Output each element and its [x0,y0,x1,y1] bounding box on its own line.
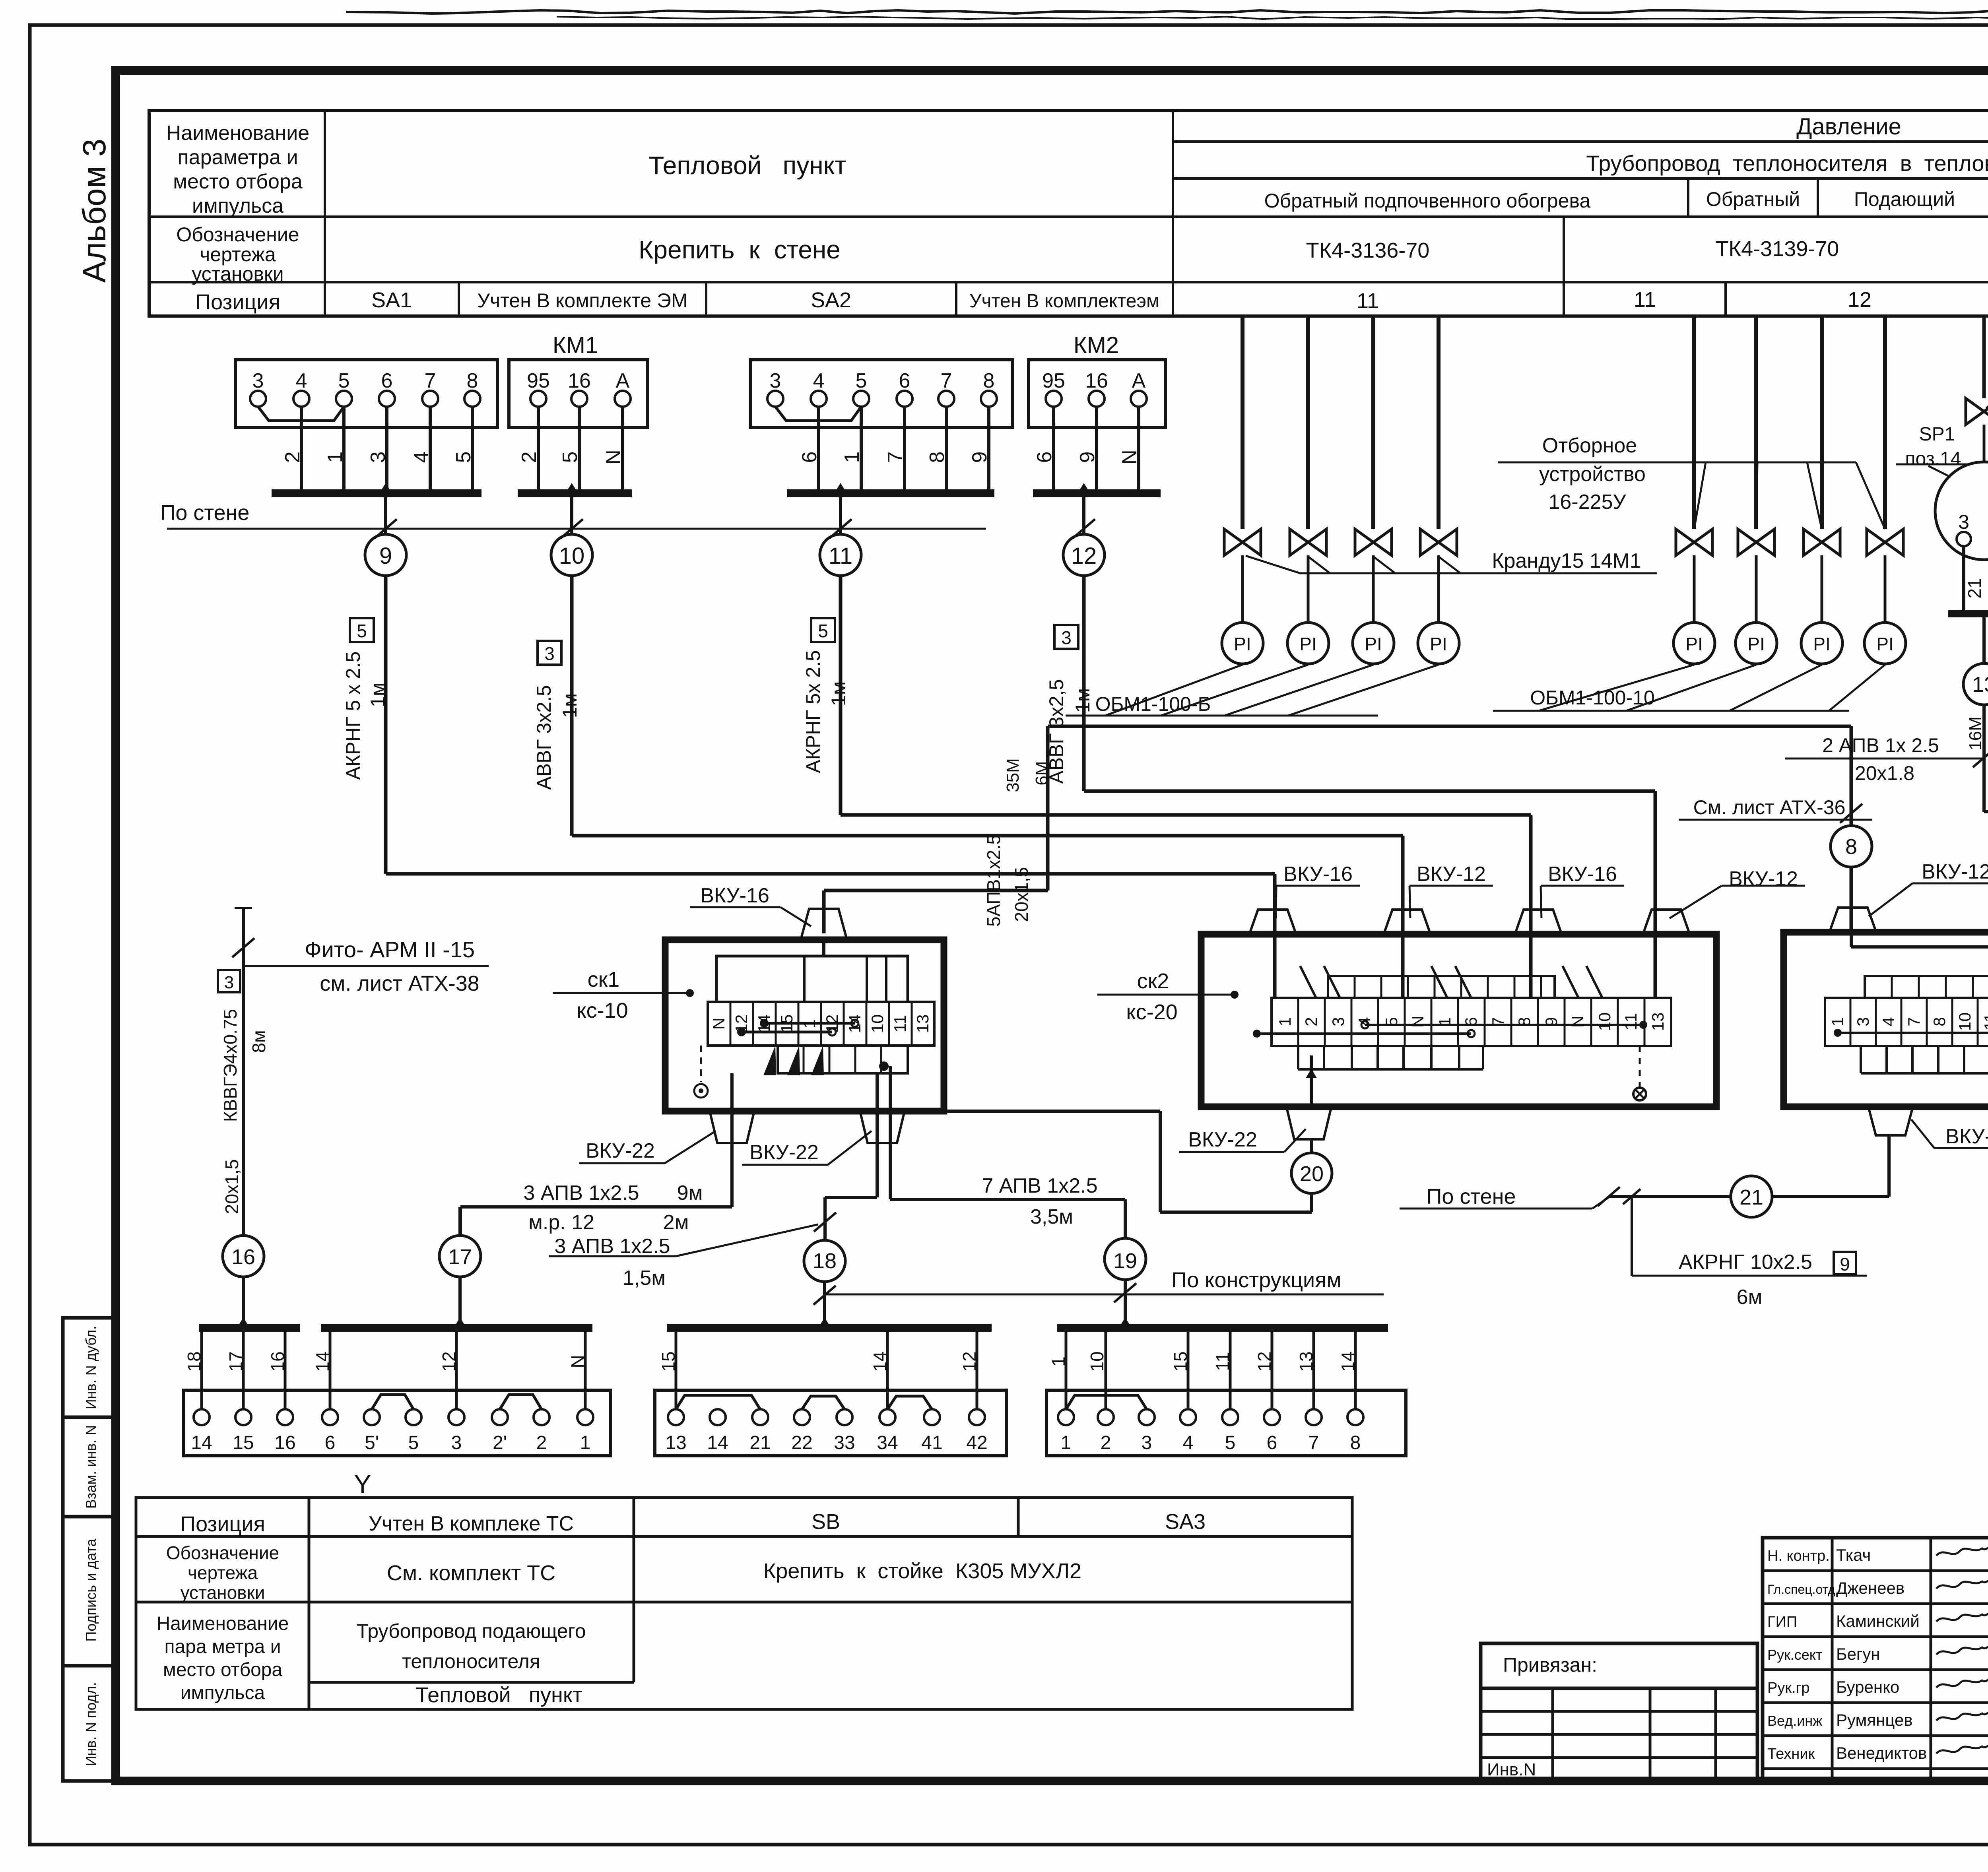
svg-text:18: 18 [184,1351,204,1372]
svg-text:N: N [1568,1016,1587,1028]
svg-text:7 АПВ 1х2.5: 7 АПВ 1х2.5 [982,1174,1097,1197]
svg-text:8м: 8м [248,1030,269,1053]
svg-text:10: 10 [559,543,585,569]
svg-text:8: 8 [1515,1017,1534,1026]
svg-text:ОБМ1-100-10: ОБМ1-100-10 [1530,687,1655,709]
svg-text:место отбора: место отбора [173,170,302,193]
svg-text:АКРНГ 5 х 2.5: АКРНГ 5 х 2.5 [342,652,364,780]
svg-text:ск2: ск2 [1137,969,1169,993]
svg-text:м.р. 12: м.р. 12 [528,1211,594,1234]
svg-text:Привязан:: Привязан: [1503,1654,1597,1676]
svg-text:ВКУ-16: ВКУ-16 [1548,863,1617,886]
svg-text:импульса: импульса [181,1682,265,1703]
svg-text:11: 11 [1357,289,1379,313]
svg-text:параметра и: параметра и [177,146,298,169]
svg-text:5: 5 [408,1432,419,1453]
svg-text:21: 21 [749,1432,771,1453]
svg-text:19: 19 [1113,1249,1137,1273]
svg-text:5: 5 [1225,1432,1236,1453]
svg-text:7: 7 [884,452,907,463]
svg-text:чертежа: чертежа [200,243,276,266]
svg-text:16: 16 [231,1245,255,1269]
svg-text:АКРНГ 5х 2.5: АКРНГ 5х 2.5 [802,650,824,773]
svg-text:10: 10 [868,1015,887,1033]
svg-text:теплоносителя: теплоносителя [402,1650,540,1672]
svg-text:PI: PI [1365,634,1382,654]
svg-text:20х1.8: 20х1.8 [1855,762,1914,784]
svg-text:Тепловой пункт: Тепловой пункт [648,151,846,180]
svg-text:18: 18 [813,1249,837,1273]
svg-text:Рук.сект: Рук.сект [1767,1647,1822,1663]
svg-text:Инв.N: Инв.N [1487,1760,1536,1779]
svg-text:11: 11 [891,1015,909,1032]
svg-text:13: 13 [1648,1013,1667,1031]
svg-text:3: 3 [367,452,390,463]
svg-text:8: 8 [467,369,478,392]
svg-text:4: 4 [296,369,307,392]
svg-text:5: 5 [818,621,828,641]
svg-text:11: 11 [1212,1352,1233,1371]
svg-text:N: N [602,450,625,465]
svg-text:14: 14 [191,1432,212,1453]
svg-text:20х1,5: 20х1,5 [1011,867,1032,922]
svg-text:Н. контр.: Н. контр. [1767,1548,1830,1564]
svg-text:PI: PI [1234,634,1251,654]
svg-text:Обратный подпочвенного обогрев: Обратный подпочвенного обогрева [1264,190,1591,212]
svg-text:См. лист АТХ-36: См. лист АТХ-36 [1693,796,1846,819]
svg-text:Бегун: Бегун [1836,1645,1880,1663]
svg-text:По стене: По стене [1427,1185,1516,1209]
svg-text:2 АПВ 1х 2.5: 2 АПВ 1х 2.5 [1822,734,1939,757]
svg-text:3: 3 [451,1432,462,1453]
svg-text:12: 12 [1848,288,1872,312]
svg-text:Обозначение: Обозначение [166,1542,280,1563]
svg-text:2: 2 [281,452,304,463]
svg-text:3: 3 [1329,1017,1347,1026]
svg-text:3: 3 [770,369,781,392]
svg-text:Техник: Техник [1767,1746,1815,1762]
svg-text:16: 16 [267,1351,288,1372]
svg-text:14: 14 [1338,1351,1358,1372]
svg-text:АКРНГ 10х2.5: АКРНГ 10х2.5 [1679,1251,1812,1274]
svg-text:ВКУ-12: ВКУ-12 [1417,863,1486,886]
svg-text:5: 5 [357,621,367,641]
svg-text:PI: PI [1299,634,1316,654]
svg-text:16: 16 [1085,369,1108,392]
svg-text:13: 13 [665,1432,686,1453]
svg-text:Рук.гр: Рук.гр [1767,1680,1810,1696]
svg-text:ВКУ-22: ВКУ-22 [1945,1125,1988,1148]
svg-text:11: 11 [1634,288,1656,312]
svg-text:Вед.инж: Вед.инж [1767,1713,1822,1729]
svg-text:Крепить к стойке К305 МУХЛ2: Крепить к стойке К305 МУХЛ2 [763,1559,1081,1583]
svg-text:1: 1 [841,452,864,463]
svg-text:ТК4-3136-70: ТК4-3136-70 [1306,239,1430,262]
svg-text:14: 14 [707,1432,728,1453]
svg-text:2: 2 [1302,1017,1320,1026]
svg-text:Тепловой пункт: Тепловой пункт [415,1683,582,1707]
svg-text:13: 13 [1296,1351,1316,1372]
svg-text:N: N [567,1355,588,1368]
svg-text:3: 3 [224,973,234,992]
svg-text:Дженеев: Дженеев [1836,1579,1905,1597]
svg-text:14: 14 [870,1351,890,1372]
svg-text:1: 1 [324,452,347,463]
svg-text:4: 4 [1355,1017,1374,1026]
svg-text:А: А [616,369,630,392]
svg-text:1: 1 [1048,1356,1069,1367]
svg-text:17: 17 [225,1351,246,1372]
svg-text:20: 20 [1300,1162,1324,1186]
svg-text:4: 4 [813,369,825,392]
svg-text:2м: 2м [663,1211,689,1234]
svg-text:3: 3 [1061,627,1072,648]
svg-text:6: 6 [325,1432,336,1453]
svg-text:См. комплект ТС: См. комплект ТС [387,1561,555,1585]
svg-text:ВКУ-16: ВКУ-16 [700,884,769,907]
svg-text:13: 13 [913,1015,932,1033]
svg-text:6: 6 [899,369,911,392]
svg-text:8: 8 [1845,835,1857,859]
svg-text:PI: PI [1685,634,1703,654]
svg-text:1м: 1м [827,681,850,706]
svg-text:ГИП: ГИП [1767,1614,1797,1630]
svg-text:6м: 6м [1737,1286,1763,1309]
svg-text:ВКУ-16: ВКУ-16 [1283,863,1353,886]
svg-text:95: 95 [527,369,550,392]
svg-text:SB: SB [812,1510,840,1534]
svg-text:Ткач: Ткач [1836,1546,1871,1564]
svg-text:8: 8 [1350,1432,1361,1453]
svg-text:16М: 16М [1966,716,1985,751]
svg-text:N: N [709,1018,728,1030]
svg-text:установки: установки [181,1582,265,1603]
svg-text:21: 21 [1964,578,1985,598]
svg-text:ВКУ-12: ВКУ-12 [1729,867,1798,890]
svg-text:Крепить к стене: Крепить к стене [639,235,841,264]
svg-text:Гл.спец.отд: Гл.спец.отд [1767,1582,1835,1597]
svg-text:4: 4 [1879,1017,1898,1026]
svg-text:15: 15 [777,1015,796,1033]
svg-text:7: 7 [1905,1017,1923,1026]
svg-text:Каминский: Каминский [1836,1612,1920,1630]
svg-text:9: 9 [1542,1017,1561,1026]
svg-text:Инв. N дубл.: Инв. N дубл. [83,1326,99,1409]
svg-text:Отборное: Отборное [1542,434,1637,457]
svg-text:установки: установки [192,263,283,285]
svg-text:КВВГЭ4х0.75: КВВГЭ4х0.75 [220,1009,241,1122]
svg-text:5: 5 [856,369,867,392]
svg-text:15: 15 [233,1432,254,1453]
svg-text:11: 11 [1981,1013,1988,1030]
svg-text:Фито- АРМ II -15: Фито- АРМ II -15 [305,937,475,962]
svg-text:ВКУ-12: ВКУ-12 [1922,860,1988,883]
svg-text:8: 8 [1930,1017,1949,1026]
svg-text:33: 33 [834,1432,855,1453]
svg-text:5: 5 [1382,1017,1401,1026]
svg-text:10: 10 [1595,1013,1614,1031]
svg-text:Трубопровод теплоносителя в: Трубопровод теплоносителя в тепловом пун… [1586,151,1988,176]
svg-text:PI: PI [1430,634,1447,654]
svg-text:10: 10 [1087,1351,1107,1372]
svg-text:пара метра и: пара метра и [164,1636,281,1657]
svg-text:ТК4-3139-70: ТК4-3139-70 [1716,237,1839,261]
svg-text:11: 11 [1621,1013,1640,1030]
svg-text:Наименование: Наименование [157,1613,289,1634]
svg-text:9: 9 [1840,1254,1850,1275]
svg-text:14: 14 [312,1351,333,1372]
svg-text:95: 95 [1042,369,1065,392]
svg-text:42: 42 [966,1432,987,1453]
svg-text:N: N [1118,450,1141,465]
svg-text:КМ2: КМ2 [1074,332,1119,358]
svg-text:1: 1 [580,1432,591,1453]
svg-text:кс-20: кс-20 [1126,1000,1177,1024]
svg-text:9м: 9м [677,1181,703,1205]
svg-text:6: 6 [381,369,393,392]
svg-text:Обозначение: Обозначение [176,223,299,246]
svg-text:8: 8 [926,452,949,463]
svg-text:6: 6 [798,452,821,463]
svg-text:PI: PI [1813,634,1830,654]
svg-text:см. лист АТХ-38: см. лист АТХ-38 [320,972,479,995]
svg-text:12: 12 [1071,543,1097,569]
svg-text:Трубопровод подающего: Трубопровод подающего [356,1620,586,1642]
svg-text:Позиция: Позиция [195,290,280,314]
svg-text:Y: Y [354,1470,371,1498]
svg-text:2': 2' [493,1432,507,1453]
svg-text:6М: 6М [1032,761,1052,785]
svg-text:7: 7 [1309,1432,1319,1453]
svg-text:10: 10 [1955,1013,1974,1031]
svg-text:1: 1 [800,1019,819,1028]
svg-text:41: 41 [921,1432,942,1453]
svg-text:3,5м: 3,5м [1030,1205,1073,1228]
svg-text:По конструкциям: По конструкциям [1171,1268,1341,1292]
svg-text:Наименование: Наименование [166,122,309,145]
svg-text:11: 11 [829,543,852,569]
svg-text:14: 14 [845,1015,864,1033]
svg-text:Учтен В комплектеэм: Учтен В комплектеэм [969,291,1159,312]
svg-text:5: 5 [452,452,475,463]
svg-text:чертежа: чертежа [188,1562,258,1583]
svg-text:14: 14 [755,1015,773,1033]
svg-text:импульса: импульса [192,194,283,217]
svg-text:5: 5 [559,452,582,463]
svg-text:Альбом 3: Альбом 3 [76,139,113,283]
svg-text:Инв. N подл.: Инв. N подл. [83,1682,99,1766]
svg-text:ВКУ-22: ВКУ-22 [749,1141,819,1164]
svg-text:3: 3 [252,369,264,392]
svg-text:Учтен В комплекте ЭМ: Учтен В комплекте ЭМ [477,289,687,312]
svg-text:16: 16 [568,369,591,392]
svg-text:6: 6 [1267,1432,1277,1453]
svg-text:Позиция: Позиция [180,1512,265,1536]
svg-text:9: 9 [968,452,991,463]
svg-text:N: N [1408,1016,1427,1028]
svg-text:3 АПВ 1х2.5: 3 АПВ 1х2.5 [523,1181,639,1205]
svg-text:22: 22 [791,1432,812,1453]
svg-text:8: 8 [983,369,995,392]
svg-text:15: 15 [658,1351,679,1372]
svg-text:1: 1 [1435,1017,1454,1026]
svg-text:1: 1 [1061,1432,1072,1453]
svg-text:Учтен В комплеке ТС: Учтен В комплеке ТС [369,1512,574,1535]
svg-text:2: 2 [1101,1432,1111,1453]
svg-text:1м: 1м [367,683,389,707]
svg-text:13: 13 [1972,673,1988,696]
svg-text:3: 3 [1142,1432,1152,1453]
svg-text:КМ1: КМ1 [553,332,598,358]
svg-text:5: 5 [338,369,350,392]
svg-text:7: 7 [941,369,952,392]
svg-text:PI: PI [1747,634,1765,654]
svg-text:место отбора: место отбора [163,1659,283,1680]
svg-text:6: 6 [1462,1017,1480,1026]
svg-text:SA1: SA1 [371,288,412,312]
svg-text:9: 9 [1076,452,1099,463]
svg-text:ОБМ1-100-Б: ОБМ1-100-Б [1095,693,1211,715]
svg-text:12: 12 [823,1015,841,1033]
svg-text:4: 4 [1183,1432,1194,1453]
svg-text:12: 12 [439,1351,459,1372]
svg-text:1: 1 [1276,1017,1294,1026]
svg-text:3: 3 [1958,511,1969,533]
svg-text:Подпись и дата: Подпись и дата [83,1538,99,1642]
svg-text:Давление: Давление [1796,114,1901,140]
svg-text:4: 4 [410,452,433,463]
svg-text:35М: 35М [1003,758,1023,792]
svg-text:16-225У: 16-225У [1549,491,1627,514]
svg-text:АВВГ 3х2.5: АВВГ 3х2.5 [533,685,555,790]
svg-text:Кранду15 14М1: Кранду15 14М1 [1492,549,1641,572]
svg-text:6: 6 [1033,452,1056,463]
svg-text:7: 7 [1489,1017,1507,1026]
svg-text:1м: 1м [1072,688,1094,713]
svg-text:3: 3 [1854,1017,1872,1026]
svg-text:Венедиктов: Венедиктов [1836,1744,1927,1762]
svg-text:кс-10: кс-10 [577,999,628,1022]
svg-text:Румянцев: Румянцев [1836,1711,1913,1729]
svg-text:5АПВ1х2.5: 5АПВ1х2.5 [983,834,1004,927]
svg-text:ВКУ-22: ВКУ-22 [1188,1128,1257,1151]
svg-text:поз.14: поз.14 [1905,448,1961,469]
svg-text:устройство: устройство [1539,463,1646,486]
svg-text:SP1: SP1 [1919,424,1955,445]
svg-text:20х1,5: 20х1,5 [221,1159,242,1214]
svg-text:7: 7 [425,369,436,392]
svg-text:15: 15 [1170,1351,1191,1372]
svg-text:Буренко: Буренко [1836,1678,1899,1696]
svg-text:ВКУ-22: ВКУ-22 [586,1139,655,1162]
svg-text:9: 9 [379,543,392,569]
svg-text:3: 3 [544,643,555,664]
svg-text:SA2: SA2 [811,288,851,312]
svg-text:Подающий: Подающий [1854,188,1955,210]
svg-text:1,5м: 1,5м [623,1267,666,1290]
svg-text:PI: PI [1876,634,1893,654]
svg-text:2: 2 [518,452,541,463]
svg-text:1м: 1м [559,693,581,718]
svg-text:ск1: ск1 [588,968,620,991]
svg-text:17: 17 [448,1245,472,1269]
svg-text:2: 2 [536,1432,547,1453]
svg-text:12: 12 [1254,1351,1275,1372]
svg-text:21: 21 [1739,1185,1763,1209]
svg-text:12: 12 [732,1015,751,1033]
svg-text:SA3: SA3 [1165,1510,1206,1534]
svg-text:По стене: По стене [160,501,250,525]
svg-text:34: 34 [877,1432,898,1453]
svg-text:3 АПВ 1х2.5: 3 АПВ 1х2.5 [554,1235,670,1258]
svg-text:Взам. инв. N: Взам. инв. N [83,1425,99,1509]
svg-text:5': 5' [365,1432,379,1453]
svg-text:Обратный: Обратный [1706,188,1800,210]
svg-text:А: А [1132,369,1146,392]
svg-text:16: 16 [274,1432,295,1453]
svg-text:12: 12 [959,1351,980,1372]
svg-text:1: 1 [1828,1017,1847,1026]
